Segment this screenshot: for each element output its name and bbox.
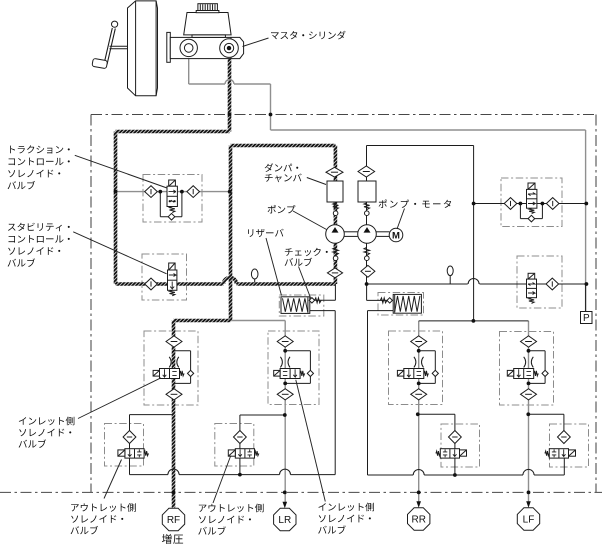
svg-text:LF: LF [523, 514, 535, 525]
svg-text:LR: LR [278, 515, 291, 526]
svg-text:RR: RR [411, 514, 425, 525]
svg-text:P: P [583, 313, 590, 324]
svg-text:M: M [392, 231, 400, 242]
svg-text:RF: RF [167, 515, 180, 526]
